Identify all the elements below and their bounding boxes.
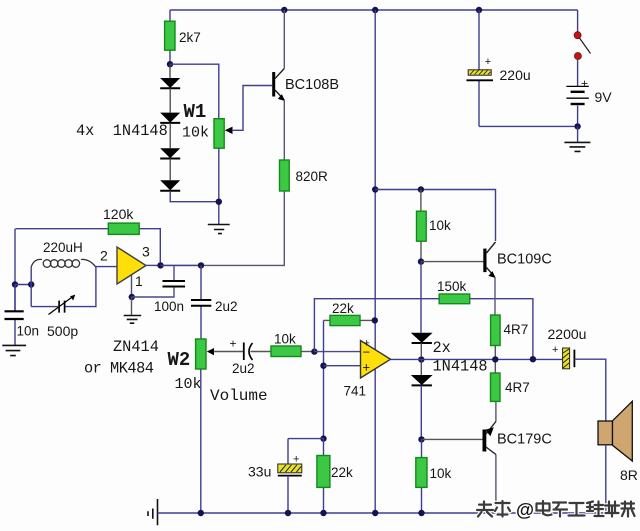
wire tank left rail (30, 267, 32, 307)
svg-text:Volume: Volume (210, 387, 268, 405)
wire 22k left down to non-inverting input (323, 320, 325, 438)
capacitor 220u electrolytic (467, 10, 531, 126)
resistor 22k feedback (324, 301, 375, 326)
transistor Q2 BC109C (483, 242, 552, 278)
node inverting input (311, 348, 317, 354)
label 2x 1N4148 (433, 339, 488, 376)
node rail at 22k (320, 510, 326, 516)
svg-text:33u: 33u (248, 464, 271, 480)
node output at 120k (157, 262, 163, 268)
svg-text:820R: 820R (296, 169, 329, 184)
wire diode chain bottom to ground node (170, 191, 219, 202)
svg-text:4x 1N4148: 4x 1N4148 (76, 122, 168, 140)
capacitor 33u electrolytic (248, 439, 324, 513)
wire Q1 emitter to 820R (283, 100, 285, 160)
wire base to BC179C (422, 438, 483, 440)
capacitor 2u2 coupling vertical (191, 265, 238, 339)
ground below W1 (208, 225, 230, 234)
variable capacitor 500p (47, 295, 78, 339)
node 33u / 22k junction (320, 435, 326, 441)
node tank left (28, 281, 34, 287)
svg-text:22k: 22k (331, 465, 353, 480)
wire IC pin3 output (146, 264, 161, 266)
wire W2 bottom to ground rail (200, 369, 202, 513)
ground left of bottom rail (148, 499, 158, 525)
diode D5 1N4148 (411, 333, 433, 356)
wire left antenna column (14, 229, 16, 312)
svg-text:+: + (485, 56, 491, 68)
wire W1 bottom to ground node (218, 148, 220, 224)
svg-text:BC179C: BC179C (497, 432, 552, 448)
speaker LS1 8R (598, 401, 638, 483)
capacitor 100n (132, 265, 185, 314)
wire 150k right to output node (470, 299, 533, 360)
capacitor 10n (5, 285, 40, 346)
svg-text:3: 3 (142, 244, 150, 260)
long vertical wire from top rail to bottom rail (374, 10, 376, 513)
wire 820R to detector output line (161, 191, 285, 265)
wire speaker to ground rail (605, 445, 607, 513)
diode D4 1N4148 (160, 159, 180, 191)
svg-text:−: − (363, 345, 371, 360)
wire 220u bottom to battery minus (479, 125, 578, 127)
svg-text:4R7: 4R7 (504, 322, 529, 337)
node op-amp output at diodes (418, 356, 424, 362)
node A below 2k7 (167, 61, 173, 67)
wire pin2 to IC (96, 266, 117, 268)
svg-text:2u2: 2u2 (215, 299, 238, 314)
svg-text:10k: 10k (175, 376, 202, 393)
diode D3 1N4148 (160, 123, 180, 159)
wire tank bottom (31, 267, 96, 307)
diode D6 1N4148 (411, 360, 433, 440)
node BC109C base junction (418, 258, 424, 264)
wire node down to diode chain (420, 262, 422, 333)
svg-text:10n: 10n (17, 324, 40, 339)
wire op-amp output (391, 358, 422, 360)
wire BC179C collector to ground rail (495, 455, 497, 514)
node BC179C base junction (418, 436, 424, 442)
label ZN414 or MK484 (84, 338, 159, 378)
svg-text:2u2: 2u2 (232, 361, 255, 376)
svg-text:1N4148: 1N4148 (433, 358, 488, 376)
node top rail at BC108B collector (281, 7, 287, 13)
resistor 4R7 upper (491, 315, 529, 359)
wire Q1 collector to top rail (283, 10, 285, 69)
ground below pin1 (124, 297, 142, 323)
node battery minus (574, 123, 580, 129)
svg-text:22k: 22k (332, 301, 354, 316)
label 4x 1N4148 (76, 122, 168, 140)
resistor 10k lower (416, 439, 452, 513)
node diode/W1 ground junction (216, 199, 222, 205)
ground below battery (564, 126, 590, 151)
node antenna column (12, 281, 18, 287)
wire IC pin1 down (131, 275, 133, 297)
node rail at W2 (198, 510, 204, 516)
diode D2 1N4148 (160, 88, 180, 123)
svg-text:120k: 120k (103, 206, 134, 222)
svg-text:2k7: 2k7 (179, 30, 201, 45)
transistor Q3 BC179C (483, 422, 552, 455)
svg-text:500p: 500p (47, 323, 78, 339)
resistor 150k (437, 279, 470, 304)
node mid rail junction (372, 186, 378, 192)
wire top supply rail (170, 9, 578, 11)
resistor 820R (280, 160, 329, 191)
IC U1 ZN414 triangle (100, 244, 150, 290)
ground below 10n (2, 345, 26, 355)
svg-text:10k: 10k (430, 466, 452, 481)
svg-text:+: + (293, 454, 299, 466)
svg-text:2x: 2x (433, 339, 451, 357)
wire antenna to tank (15, 284, 31, 286)
wire to op-amp non-inverting input (324, 365, 361, 367)
node rail at long vertical (372, 510, 378, 516)
wire feedback up and across to 150k (314, 299, 439, 352)
svg-text:W2: W2 (168, 349, 191, 371)
transistor Q1 BC108B (272, 69, 339, 102)
svg-text:220u: 220u (500, 67, 531, 83)
svg-text:10k: 10k (429, 218, 451, 233)
wire node to op-amp inverting input (314, 351, 360, 353)
svg-text:100n: 100n (154, 299, 184, 314)
resistor 10k bias upper (417, 190, 452, 262)
wire base to BC109C (421, 261, 483, 263)
node output at 150k feedback (530, 356, 536, 362)
svg-text:BC109C: BC109C (497, 252, 552, 268)
svg-text:+: + (581, 77, 588, 91)
op-amp U2 741 (344, 338, 391, 399)
node 22k right on long vertical (372, 317, 378, 323)
resistor 4R7 lower (491, 359, 530, 401)
svg-text:1: 1 (135, 273, 143, 289)
svg-text:+: + (552, 344, 558, 356)
capacitor 2u2 electrolytic horizontal (214, 337, 272, 377)
svg-text:8R: 8R (620, 467, 638, 483)
wire output line across (421, 358, 562, 360)
diode D1 1N4148 (160, 64, 180, 88)
svg-text:150k: 150k (437, 279, 467, 294)
svg-text:4R7: 4R7 (505, 380, 530, 395)
node 10k top feed (418, 186, 424, 192)
svg-text:+: + (230, 337, 237, 351)
node top rail at long vertical (372, 7, 378, 13)
svg-text:@: @ (516, 499, 534, 520)
node non-inverting input (320, 363, 326, 369)
potentiometer W1 10k (182, 86, 272, 149)
wire node A to W1 top (170, 64, 219, 119)
node output at 4R7 junction (492, 356, 498, 362)
potentiometer W2 10k volume (168, 339, 268, 405)
svg-text:10k: 10k (182, 125, 209, 142)
inductor L1 220uH (31, 240, 96, 267)
wire output line to 2u2 (161, 264, 202, 266)
node output at 2u2 (198, 262, 204, 268)
node top rail at 220u (476, 7, 482, 13)
svg-text:2200u: 2200u (548, 326, 587, 342)
svg-text:ZN414: ZN414 (113, 338, 159, 356)
wire bottom ground rail (158, 512, 606, 514)
wire BC179C emitter to 4R7 lower (495, 401, 497, 421)
svg-text:10k: 10k (274, 332, 296, 347)
resistor 22k lower (317, 439, 353, 513)
capacitor 2200u electrolytic (548, 326, 606, 421)
svg-text:W1: W1 (184, 101, 207, 123)
wire BC109C emitter to 4R7 (494, 277, 496, 315)
wire V feed to BC109C collector (375, 190, 495, 242)
svg-text:2: 2 (100, 248, 108, 264)
svg-text:741: 741 (344, 384, 367, 399)
node pin1 / 100n junction (129, 294, 135, 300)
node rail at 10k (418, 510, 424, 516)
resistor 120k (16, 206, 161, 265)
resistor 10k series to op-amp (271, 332, 314, 357)
battery 9V (566, 77, 612, 127)
switch S1 (574, 10, 590, 86)
svg-text:9V: 9V (595, 89, 613, 105)
svg-text:+: + (363, 360, 371, 375)
svg-text:220uH: 220uH (43, 240, 83, 255)
svg-text:BC108B: BC108B (285, 77, 339, 93)
svg-text:or MK484: or MK484 (84, 360, 154, 378)
resistor 2k7 (165, 10, 201, 64)
node rail at 33u (285, 510, 291, 516)
watermark 头条@电子工程世界 (477, 499, 635, 520)
